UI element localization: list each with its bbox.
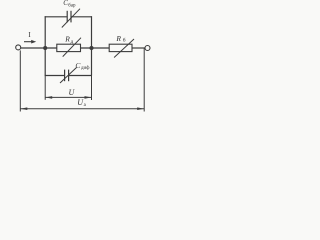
- label Uа: [77, 98, 86, 108]
- node right junction: [89, 46, 93, 50]
- label Cбар: [63, 0, 76, 8]
- wire: [69, 75, 92, 77]
- wire: [81, 47, 110, 49]
- capacitor Cбар: [62, 9, 80, 28]
- label Rд: [64, 34, 73, 45]
- terminal left: [16, 45, 21, 50]
- extension line: [143, 49, 145, 112]
- resistor Rд: [57, 38, 81, 57]
- wire: [45, 16, 67, 18]
- svg-text:R: R: [64, 34, 70, 43]
- svg-text:б: б: [123, 37, 126, 44]
- node left junction: [43, 46, 47, 50]
- current arrow I: [24, 40, 36, 44]
- label Cдиф: [75, 61, 90, 71]
- svg-text:бар: бар: [68, 3, 76, 8]
- wire: [91, 16, 93, 75]
- dimension Uа: [20, 107, 144, 110]
- wire: [44, 16, 46, 75]
- label Rб: [115, 34, 125, 44]
- capacitor Cдиф: [60, 68, 77, 84]
- terminal right: [145, 46, 150, 51]
- resistor Rб: [109, 39, 134, 58]
- extension line: [44, 76, 46, 100]
- svg-text:д: д: [70, 39, 73, 45]
- svg-text:R: R: [115, 34, 121, 43]
- extension line: [19, 50, 21, 111]
- wire: [21, 47, 57, 49]
- extension line: [91, 76, 93, 101]
- dimension U: [45, 96, 91, 99]
- wire: [132, 47, 145, 49]
- wire: [45, 75, 65, 77]
- wire: [71, 16, 92, 18]
- svg-text:диф: диф: [81, 66, 90, 71]
